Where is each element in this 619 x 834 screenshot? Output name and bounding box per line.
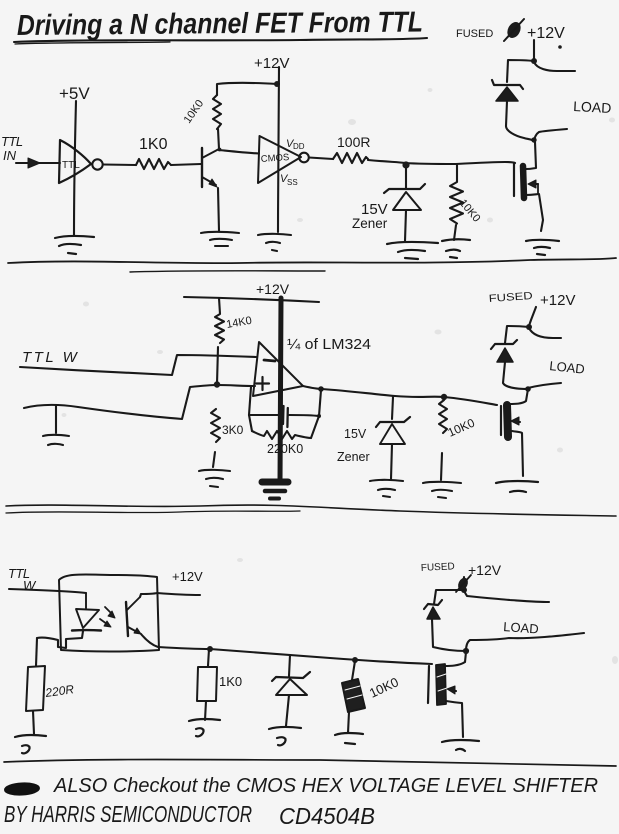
MOSFET M2 channel xyxy=(507,405,508,437)
wire TTL input 3 xyxy=(9,589,86,593)
resistor 1K0 box xyxy=(197,667,217,701)
svg-text:CMOS: CMOS xyxy=(260,152,289,165)
svg-text:+12V: +12V xyxy=(540,292,575,309)
svg-text:1K0: 1K0 xyxy=(139,136,168,153)
optocoupler box xyxy=(59,574,159,651)
separator line xyxy=(8,258,616,272)
LED inside opto xyxy=(72,593,101,631)
MOSFET M1 source wire xyxy=(526,194,543,231)
wire junction to D2 xyxy=(505,326,529,343)
ground under zener xyxy=(387,242,438,259)
junction dot 10K xyxy=(441,394,447,400)
wire supply2 right branch xyxy=(529,328,561,338)
ground left xyxy=(43,435,69,445)
svg-text:LOAD: LOAD xyxy=(573,98,612,116)
label LOAD xyxy=(573,98,612,116)
inverter output bubble xyxy=(92,159,102,169)
label 10K0 c3 xyxy=(367,674,401,700)
buffer output bubble xyxy=(299,153,309,163)
wire input with arrow xyxy=(16,158,60,168)
wire inverter output xyxy=(103,163,136,166)
MOSFET M2 drain wire xyxy=(509,389,528,404)
wire +5V vertical through inverter xyxy=(74,101,76,236)
wire gate line xyxy=(368,160,515,164)
label LOAD 2 xyxy=(549,358,586,377)
wire resistor to +12V rail xyxy=(217,83,277,95)
label Vss xyxy=(280,173,298,187)
op-amp U3 xyxy=(253,342,303,396)
svg-text:+12V: +12V xyxy=(468,562,502,578)
footer text line 2 xyxy=(4,801,375,829)
wire 10K0 c3 ground xyxy=(348,712,349,733)
svg-text:FUSED: FUSED xyxy=(421,561,455,574)
label TTL inside inverter xyxy=(62,160,80,171)
wire fuse to junction xyxy=(533,40,535,61)
wire supply2 feed xyxy=(529,307,536,327)
wire LED cathode out xyxy=(37,631,83,648)
scribble blob xyxy=(5,783,40,796)
junction dot divider xyxy=(214,381,220,387)
wire 1K0 ground xyxy=(205,701,206,720)
label 10K0 rotated xyxy=(182,98,207,126)
wire fuse stub xyxy=(463,577,465,590)
ground under inverter xyxy=(55,236,94,254)
svg-text:SS: SS xyxy=(287,178,298,187)
svg-text:Zener: Zener xyxy=(337,450,370,464)
svg-text:DD: DD xyxy=(293,142,305,151)
zener D 15V xyxy=(384,184,425,210)
svg-text:220K0: 220K0 xyxy=(267,442,303,456)
capacitor C1 xyxy=(283,406,288,427)
ground under 10K0 c2 xyxy=(423,482,461,498)
buffer U2 CMOS xyxy=(258,136,301,183)
bold ground xyxy=(262,482,288,499)
label +12V xyxy=(254,55,289,72)
resistor 1K0 xyxy=(136,159,171,169)
wire collector to CMOS input xyxy=(218,148,259,154)
label FUSED xyxy=(456,28,493,40)
MOSFET M3 drain xyxy=(444,652,466,666)
ground under zener3 xyxy=(269,727,301,745)
wire load3 bottom xyxy=(466,633,584,651)
zener D 15V 2 xyxy=(376,417,410,444)
label 1K0 xyxy=(139,136,168,153)
scan smudges xyxy=(62,88,619,664)
label +12V top right xyxy=(527,25,565,42)
label +5V xyxy=(59,84,90,103)
wire zener3 ground xyxy=(286,695,289,726)
label 10K0 rotated xyxy=(457,197,483,224)
junction dot top xyxy=(531,58,537,64)
label LOAD 3 xyxy=(503,619,539,636)
wire collector to +12V xyxy=(140,593,200,597)
svg-text:+12V: +12V xyxy=(256,281,290,297)
wire 10K0 c3 drop xyxy=(352,661,355,680)
wire resistor to base xyxy=(171,164,201,165)
label 14K0 xyxy=(225,315,252,331)
label +12V rail2 xyxy=(256,281,290,297)
wire ground drop left xyxy=(55,406,57,433)
wire 220R ground xyxy=(33,711,34,734)
junction dot xyxy=(402,161,409,168)
ground under M3 xyxy=(442,740,479,751)
wire 10K0 to ground xyxy=(454,225,456,240)
resistor 10K0 collector xyxy=(213,95,221,129)
svg-text:Driving a N channel FET From T: Driving a N channel FET From TTL xyxy=(17,6,423,42)
label 100R xyxy=(337,134,370,150)
title underline xyxy=(14,38,427,44)
wire D2 to drain node xyxy=(503,362,528,389)
label +12V 3 xyxy=(172,569,203,584)
label 15V Zener 2 xyxy=(337,427,370,464)
resistor 220R box xyxy=(26,666,45,711)
separator line C xyxy=(4,760,616,767)
bold supply line xyxy=(280,298,281,483)
ground under 220R xyxy=(15,735,46,753)
ink fleck xyxy=(558,45,562,49)
svg-text:+5V: +5V xyxy=(59,84,90,103)
svg-text:¼ of LM324: ¼ of LM324 xyxy=(287,336,371,353)
MOSFET M1 arrow xyxy=(528,180,538,193)
ground under 3K0 xyxy=(199,470,230,487)
wire 14K0 to junction xyxy=(217,347,218,384)
junction dot output xyxy=(318,386,324,392)
wire left branch to D3 xyxy=(434,590,464,604)
label Vdd xyxy=(286,138,305,151)
wire buffer output xyxy=(309,158,333,160)
op-amp minus xyxy=(264,360,275,361)
MOSFET M3 gate plate xyxy=(428,666,429,703)
junction node drain3 xyxy=(463,648,469,654)
MOSFET M1 drain wire xyxy=(526,142,536,169)
svg-text:3K0: 3K0 xyxy=(222,423,244,437)
diode D1 flyback xyxy=(492,80,523,101)
wire collector up xyxy=(218,129,219,149)
ground under CMOS xyxy=(258,234,291,251)
svg-text:1K0: 1K0 xyxy=(219,674,242,689)
label +12V 2 xyxy=(540,292,575,309)
label FUSED 3 xyxy=(421,561,455,574)
svg-text:CD4504B: CD4504B xyxy=(279,803,375,829)
resistor 220K0 xyxy=(252,431,311,439)
zener D z3 xyxy=(272,672,310,695)
wire 1K0 drop xyxy=(208,649,209,666)
ground under M1 xyxy=(526,240,559,255)
title text xyxy=(17,6,423,42)
label 1/4 of LM324 xyxy=(287,336,371,353)
phototransistor xyxy=(126,597,141,636)
wire +12V right branch xyxy=(534,62,575,71)
svg-text:TTL: TTL xyxy=(1,134,23,149)
transistor Q1 xyxy=(202,148,219,187)
svg-text:BY HARRIS SEMICONDUCTOR: BY HARRIS SEMICONDUCTOR xyxy=(4,801,252,827)
MOSFET M2 source wire xyxy=(512,431,523,476)
wire LOAD bottom xyxy=(534,129,567,140)
svg-text:+12V: +12V xyxy=(527,25,565,42)
junction dot 1K0 xyxy=(207,646,213,652)
resistor 3K0 xyxy=(211,409,220,442)
wire to 220R xyxy=(36,638,37,666)
wire right branch 3 xyxy=(464,591,549,602)
resistor 14K0 xyxy=(215,298,224,343)
fuse F1 xyxy=(504,19,524,41)
svg-text:IN: IN xyxy=(3,148,17,163)
svg-text:100R: 100R xyxy=(337,134,370,150)
label 1K0 c3 xyxy=(219,674,242,689)
ground under Q1 xyxy=(201,232,239,246)
label 220R xyxy=(43,682,75,700)
label 3K0 xyxy=(222,423,244,437)
svg-text:TTL W: TTL W xyxy=(22,349,79,366)
wire zener2 ground xyxy=(391,444,392,479)
footer text line 1 xyxy=(53,775,598,797)
wire 3K0 to ground xyxy=(213,452,215,467)
wire junction to diode xyxy=(507,60,534,82)
wire op-amp output xyxy=(303,386,322,389)
MOSFET M1 channel xyxy=(523,166,524,198)
ground under 10K0 c3 xyxy=(335,733,363,744)
fuse F3 xyxy=(456,575,471,592)
label CMOS xyxy=(260,152,289,165)
wire emitter down xyxy=(218,188,219,231)
wire +12V rail2 xyxy=(184,297,319,302)
svg-text:+12V: +12V xyxy=(172,569,203,584)
wire emitter long line xyxy=(141,634,432,664)
label TTL IN 2 xyxy=(22,349,79,366)
wire +12V vertical through CMOS buffer xyxy=(278,67,279,232)
wire TTL to minus input xyxy=(20,355,256,375)
MOSFET M2 gate plate xyxy=(500,406,502,435)
label TTL IN 3 xyxy=(8,566,37,593)
wire LOAD2 bottom xyxy=(528,383,561,388)
label 10K0 c2 xyxy=(446,415,478,439)
op-amp plus xyxy=(256,377,269,390)
ground under 1K0 xyxy=(189,719,220,736)
MOSFET M2 arrow xyxy=(511,417,520,425)
ground under M2 xyxy=(496,481,538,492)
wire bias to plus input xyxy=(24,385,255,419)
MOSFET M1 gate plate xyxy=(513,163,515,196)
label +12V 3b xyxy=(468,562,502,578)
wire D3 to drain node xyxy=(432,619,466,651)
junction dot xyxy=(274,81,280,87)
inverter U1 TTL xyxy=(59,140,91,183)
resistor 10K0 gate xyxy=(450,165,463,224)
junction dot supply3 xyxy=(461,587,467,593)
junction dot drain2 xyxy=(525,386,531,392)
label FUSED 2 xyxy=(488,290,533,305)
diode D2 flyback xyxy=(491,340,517,362)
junction dot 10K0 xyxy=(352,657,358,663)
junction dot supply2 xyxy=(526,324,532,330)
label 220K0 xyxy=(267,442,303,456)
svg-text:+12V: +12V xyxy=(254,55,289,72)
MOSFET M3 source xyxy=(446,701,463,737)
resistor 100R xyxy=(333,153,368,163)
wire feedback left xyxy=(249,387,281,431)
svg-text:TTL: TTL xyxy=(62,160,80,171)
svg-text:Zener: Zener xyxy=(352,216,388,231)
label 15V Zener xyxy=(352,201,388,231)
wire capacitor right xyxy=(289,414,321,418)
wire zener3 drop xyxy=(289,655,290,676)
separator line B xyxy=(6,505,616,516)
wire zener drop xyxy=(405,168,407,189)
light arrows xyxy=(100,607,115,627)
ground under zener2 xyxy=(370,480,403,497)
wire zener to ground xyxy=(405,210,406,241)
wire zener2 drop xyxy=(392,397,393,419)
wire feedback right xyxy=(311,390,321,438)
svg-text:FUSED: FUSED xyxy=(456,28,493,40)
MOSFET M3 arrow xyxy=(447,686,456,694)
resistor 10K0 c3 hatched xyxy=(342,679,365,712)
svg-text:15V: 15V xyxy=(344,427,367,441)
wire diode to drain node xyxy=(506,101,532,140)
wire 10K0 c2 ground xyxy=(441,453,442,480)
junction node drain xyxy=(531,137,536,142)
label TTL IN xyxy=(1,134,23,163)
resistor 10K0 c2 xyxy=(439,400,447,433)
diode D3 xyxy=(424,600,442,619)
wire output line to gate xyxy=(322,389,497,405)
MOSFET M3 channel hatched xyxy=(436,664,447,705)
svg-text:LOAD: LOAD xyxy=(503,619,539,636)
ground under 10K0 xyxy=(442,239,470,258)
svg-text:ALSO Checkout the CMOS HEX VOL: ALSO Checkout the CMOS HEX VOLTAGE LEVEL… xyxy=(53,775,598,797)
